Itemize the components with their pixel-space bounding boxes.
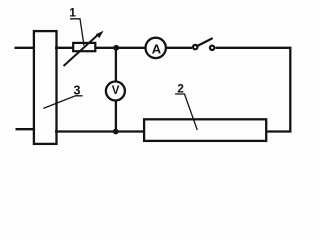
load resistor 2 (box) [144, 119, 266, 141]
rheostat 1 adjustment arrow [64, 31, 104, 66]
voltmeter V [106, 82, 125, 101]
svg-text:1: 1 [69, 6, 76, 20]
svg-text:V: V [112, 85, 120, 97]
wire: rheostat 1 to ammeter A [96, 47, 147, 49]
node: top junction (voltmeter tap) [113, 45, 119, 51]
label 2 with leader line [175, 81, 197, 130]
node: bottom junction [113, 129, 119, 135]
wire: ammeter to switch [166, 47, 192, 49]
wire: box 3 to rheostat 1 [55, 47, 73, 49]
svg-text:2: 2 [177, 81, 184, 95]
label 3 with leader line [43, 83, 82, 108]
wire: bottom return (load 2 to box 3) [55, 130, 145, 132]
rheostat 1 (box) [73, 43, 95, 51]
wire: bottom-left supply lead [16, 128, 35, 130]
power source 3 (tall box) [34, 31, 57, 144]
wire: top junction down to voltmeter [115, 48, 117, 82]
wire: top-left supply lead [15, 47, 35, 49]
wire: switch to right side, down, and to load 2 [216, 48, 291, 132]
svg-text:A: A [152, 41, 162, 56]
switch S (open) [193, 39, 214, 51]
label 1 with leader line [69, 6, 84, 46]
wire: voltmeter down to bottom return wire [115, 101, 117, 132]
ammeter A [146, 38, 166, 58]
